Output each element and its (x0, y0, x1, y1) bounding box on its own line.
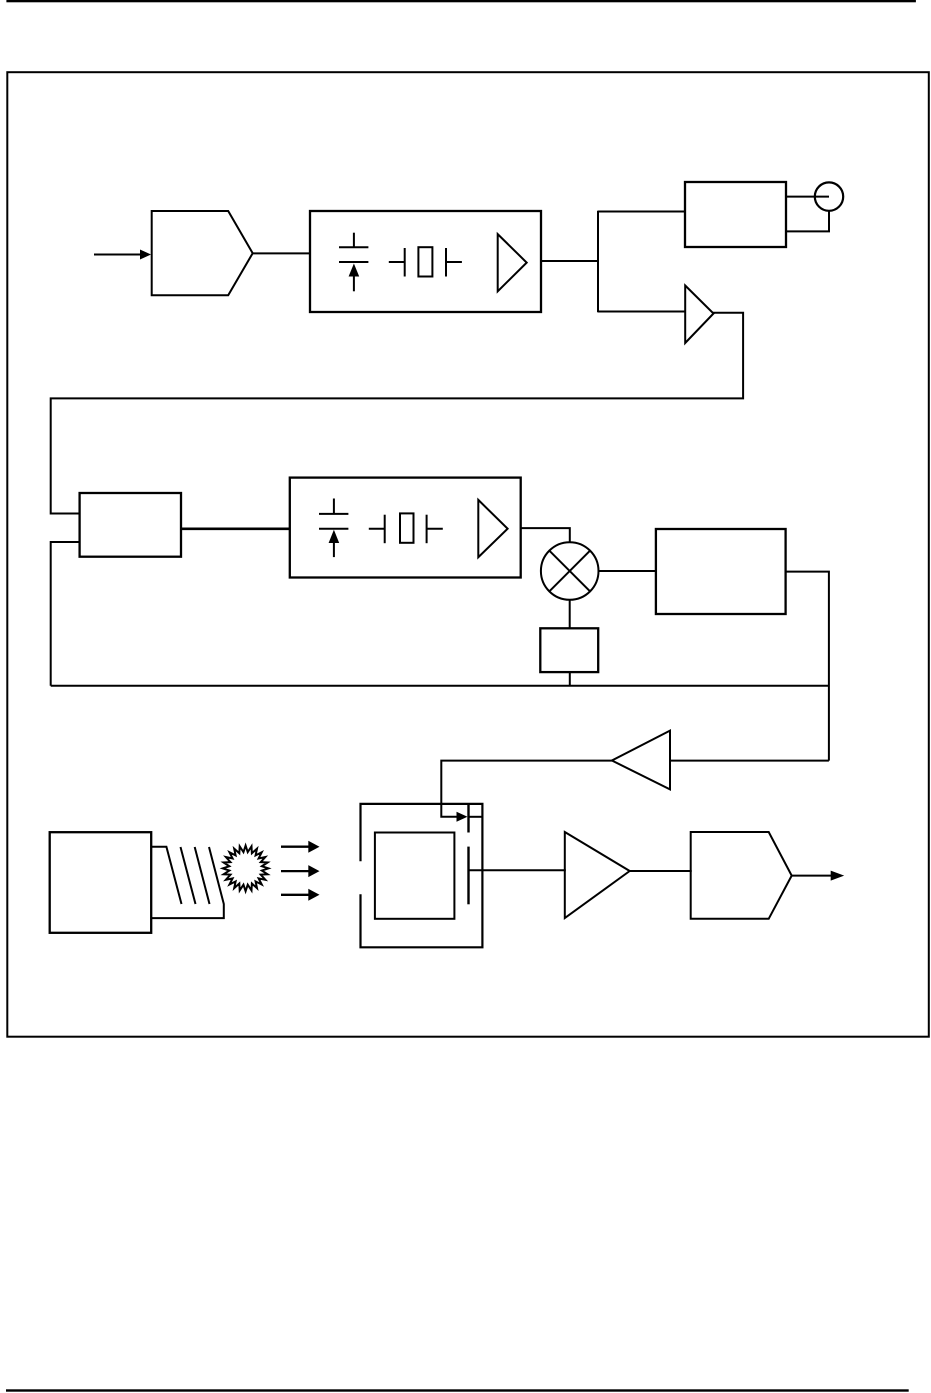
phase detector box PD1 (80, 493, 181, 557)
amplifier A3 (inside VCXO) (478, 500, 507, 557)
wire (469, 869, 566, 871)
wire (786, 211, 829, 232)
photodetector plate lower stub (467, 847, 469, 905)
microwave cavity (outer box with window gap) (361, 804, 483, 947)
frequency divider FD1 (pentagon) (152, 211, 253, 295)
wire long feedback line (51, 685, 829, 687)
crystal Y1 (389, 247, 462, 276)
wire (670, 760, 829, 762)
wire (569, 600, 571, 629)
wire (51, 313, 743, 514)
variable capacitor C2 (319, 499, 348, 558)
wire (786, 572, 829, 761)
lamp reflector fins (151, 847, 224, 918)
wire (51, 542, 80, 686)
mixer X1 (541, 542, 599, 600)
wire (629, 870, 692, 872)
lamp exciter box L1 (50, 832, 152, 933)
output divider FD2 (pentagon) (691, 832, 792, 919)
crystal oscillator box OSC1 (310, 211, 541, 312)
wire (521, 528, 570, 542)
wire (441, 761, 612, 817)
frequency multiplier box M1 (656, 529, 786, 614)
buffer amplifier A2 (685, 286, 713, 344)
crystal Y2 (369, 513, 443, 543)
wire (181, 527, 290, 530)
wire (786, 196, 829, 198)
wire (569, 672, 571, 686)
output amplifier A5 (565, 832, 630, 918)
servo amplifier A4 (points left) (612, 731, 670, 790)
absorption cell (inner box) (375, 833, 455, 919)
wire (598, 311, 686, 313)
output arrow (792, 871, 845, 881)
lamp (starburst) (223, 846, 269, 892)
output buffer box B1 (685, 182, 786, 247)
wire (541, 260, 598, 262)
wire (253, 252, 310, 254)
arrow into cavity (457, 812, 468, 822)
variable capacitor C1 (339, 233, 368, 292)
amplifier A1 (inside oscillator) (498, 234, 527, 291)
coupling loop upper stub (467, 804, 469, 833)
wire (598, 211, 685, 213)
filter box F1 (540, 628, 598, 672)
wire (468, 816, 483, 818)
wire (599, 570, 656, 572)
voltage controlled crystal oscillator box OSC2 (290, 478, 521, 578)
input arrow (94, 250, 151, 260)
node split vertical wire (597, 211, 599, 313)
light beam arrows (281, 841, 320, 901)
output connector J1 (circle) (815, 182, 843, 210)
